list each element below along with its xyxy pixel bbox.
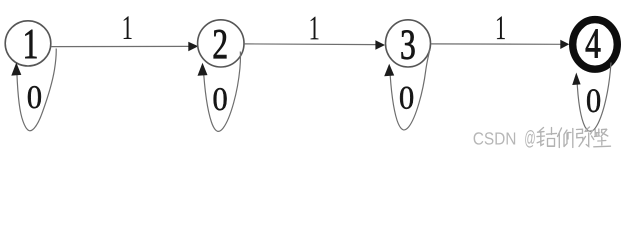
self-loop 2 arrowhead bbox=[198, 63, 208, 76]
watermark char yang bbox=[558, 128, 573, 148]
wire: transition 3 to 4 bbox=[431, 43, 561, 45]
arrowhead into state 3 bbox=[375, 40, 385, 49]
watermark CSDN @ bbox=[474, 130, 535, 148]
self-loop on state 1 bbox=[17, 49, 57, 131]
arrowhead into state 2 bbox=[188, 42, 198, 51]
arrowhead into state 4 bbox=[560, 40, 569, 49]
watermark chinese characters (drawn strokes) bbox=[537, 127, 611, 148]
state 4 label bbox=[586, 29, 601, 57]
self-loop on state 3 bbox=[390, 50, 430, 130]
transition label 1 (third) bbox=[497, 16, 505, 39]
state 1 label bbox=[25, 30, 36, 58]
wire: transition 2 to 3 bbox=[244, 43, 377, 46]
self-loop 2 label 0 bbox=[214, 88, 227, 110]
state 4 accepting circle (thick ring) bbox=[573, 20, 618, 70]
state 2 label bbox=[214, 30, 227, 58]
state 3 circle bbox=[386, 20, 431, 67]
self-loop 4 arrowhead bbox=[572, 73, 580, 86]
self-loop 3 arrowhead bbox=[384, 64, 394, 76]
state 1 circle bbox=[5, 21, 51, 66]
transition label 1 (second) bbox=[311, 17, 319, 40]
self-loop 1 label 0 bbox=[28, 86, 41, 108]
state 3 label bbox=[402, 30, 415, 59]
wire: transition 1 to 2 bbox=[51, 45, 189, 47]
state 2 circle bbox=[198, 20, 244, 67]
self-loop 1 arrowhead bbox=[11, 63, 21, 76]
watermark char zuan bbox=[537, 128, 545, 146]
self-loop on state 2 bbox=[203, 52, 240, 132]
watermark char jian bbox=[594, 129, 611, 147]
self-loop 4 label 0 bbox=[587, 89, 600, 112]
self-loop 3 label 0 bbox=[400, 87, 413, 109]
watermark char mi bbox=[577, 127, 594, 147]
self-loop on state 4 bbox=[577, 63, 611, 132]
transition label 1 (first) bbox=[124, 16, 132, 39]
